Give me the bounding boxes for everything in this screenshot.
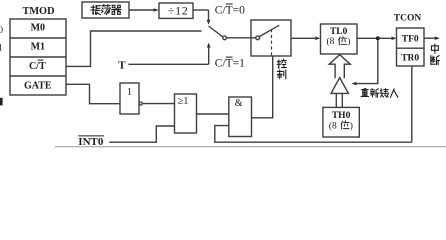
wire divider to switch upper contact bbox=[193, 9, 209, 11]
svg-text:C/T=0: C/T=0 bbox=[215, 5, 245, 17]
svg-text:0: 0 bbox=[0, 26, 3, 36]
wire TR0 down bbox=[411, 66, 413, 142]
svg-text:≥1: ≥1 bbox=[178, 96, 189, 107]
wire GATE to inverter bbox=[66, 84, 120, 103]
wire bottom run TR0 to AND bbox=[215, 126, 412, 143]
svg-text:C/T=1: C/T=1 bbox=[215, 58, 245, 70]
control switch arm bbox=[259, 25, 279, 36]
control switch circle bbox=[256, 36, 260, 40]
svg-text:M1: M1 bbox=[31, 42, 45, 53]
oscillator box 振荡器 bbox=[82, 2, 129, 18]
svg-text:1: 1 bbox=[127, 87, 132, 98]
wire oscillator to divider bbox=[129, 9, 155, 11]
register TCON box bbox=[397, 28, 425, 66]
svg-text:TR0: TR0 bbox=[401, 54, 419, 64]
control dashed actuator line bbox=[271, 29, 273, 56]
svg-text:&: & bbox=[235, 98, 243, 109]
wire inverter to OR bbox=[142, 103, 174, 105]
svg-text:T: T bbox=[118, 59, 126, 71]
svg-text:TF0: TF0 bbox=[402, 34, 419, 44]
svg-text:): ) bbox=[350, 120, 353, 131]
svg-text:1: 1 bbox=[0, 44, 3, 54]
inverter bubble bbox=[139, 102, 142, 105]
inverter box 1 bbox=[120, 83, 139, 114]
svg-text:GATE: GATE bbox=[24, 81, 52, 92]
register TMOD box bbox=[10, 19, 66, 95]
shaft TH0 to triangle bbox=[335, 93, 337, 107]
svg-text:(8: (8 bbox=[329, 120, 337, 131]
label 重新装入 bbox=[361, 88, 369, 96]
wire control box to TL0 bbox=[291, 37, 316, 39]
buffer triangle bbox=[331, 78, 348, 94]
clipped mark bottom left bbox=[0, 98, 3, 106]
svg-text:(8: (8 bbox=[327, 36, 335, 47]
wire selector to control box bbox=[227, 37, 252, 39]
svg-text:TMOD: TMOD bbox=[22, 6, 54, 17]
wire T to switch lower contact bbox=[128, 63, 208, 65]
svg-text:TL0: TL0 bbox=[330, 27, 348, 37]
svg-text:INT0: INT0 bbox=[78, 136, 104, 148]
wire TF0 to interrupt bbox=[424, 37, 436, 39]
svg-text:TH0: TH0 bbox=[332, 111, 351, 121]
svg-text:÷12: ÷12 bbox=[168, 4, 189, 18]
wire AND output to control bbox=[252, 56, 273, 118]
svg-text:C/T: C/T bbox=[29, 61, 46, 72]
register TL0 box bbox=[321, 24, 358, 54]
hollow load arrow into TL0 bbox=[329, 55, 350, 79]
wire OR to AND bbox=[197, 113, 229, 115]
junction dot bbox=[376, 36, 380, 40]
faint scan rule at bottom bbox=[55, 146, 446, 148]
divider box ÷12 bbox=[159, 3, 193, 18]
wire TL0 to TCON bbox=[357, 37, 393, 39]
wire INT0 to OR bbox=[109, 126, 174, 142]
control gate box bbox=[251, 20, 291, 56]
register TH0 box bbox=[323, 107, 359, 137]
control switch stub bbox=[251, 37, 256, 39]
wire C/T bit to selector bbox=[66, 31, 202, 66]
selector switch arm bbox=[209, 26, 223, 37]
OR gate box bbox=[175, 94, 197, 133]
wire reload trigger from junction bbox=[357, 40, 378, 83]
selector pivot circle bbox=[223, 36, 227, 40]
AND gate box bbox=[229, 97, 252, 137]
svg-text:M0: M0 bbox=[31, 23, 45, 34]
svg-text:TCON: TCON bbox=[394, 13, 422, 23]
svg-text:): ) bbox=[347, 36, 350, 47]
label 中断 bbox=[431, 44, 438, 53]
label 控制 bbox=[277, 59, 286, 68]
